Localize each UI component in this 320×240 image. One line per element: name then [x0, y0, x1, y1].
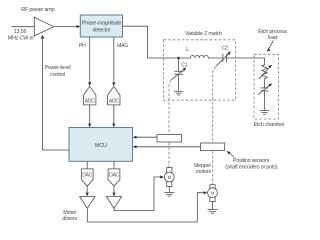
block: MCU — [69, 128, 133, 162]
label: Motor drivers — [62, 210, 77, 222]
wire: MCU to DAC2 — [113, 161, 115, 169]
wire: position sensor 1 to MCU with arrowhead — [133, 136, 157, 139]
svg-text:Power-level: Power-level — [45, 65, 71, 71]
node: C1 junction dot — [177, 57, 180, 60]
etch chamber enclosure (dashed box) — [254, 54, 279, 119]
label: L — [186, 47, 189, 53]
label: Position sensors (shaft encoders or pots) — [225, 158, 278, 170]
stepper motor 2 — [208, 185, 218, 209]
wire: 13.56 MHz CW input — [12, 26, 35, 28]
wire: ADC1 output to MCU with arrowhead — [88, 105, 91, 128]
svg-text:MCU: MCU — [95, 143, 107, 149]
wire: C2 to etch chamber, down to load — [226, 58, 264, 64]
svg-text:C2: C2 — [222, 46, 228, 52]
position sensor box 1 — [157, 135, 182, 143]
ADC 1 (phase) — [84, 86, 96, 105]
motor driver 2 (triangle) — [106, 197, 121, 209]
svg-text:13.56: 13.56 — [14, 29, 27, 35]
wire: DAC2 to driver with arrowhead — [112, 186, 115, 196]
svg-text:PH: PH — [79, 43, 86, 49]
label: Etch process load — [258, 29, 287, 41]
svg-text:Position sensors: Position sensors — [233, 158, 270, 164]
stepper motor 1 — [164, 168, 174, 193]
DAC 2 — [108, 169, 120, 186]
ADC 2 (magnitude) — [108, 86, 120, 105]
svg-text:(shaft encoders or pots): (shaft encoders or pots) — [225, 164, 278, 170]
wire: DAC1 to driver with arrowhead — [86, 186, 89, 196]
DAC 1 — [81, 169, 93, 186]
wire: MAG signal to ADC with arrowhead — [112, 37, 115, 86]
svg-text:Stepper: Stepper — [193, 163, 211, 169]
svg-text:drivers: drivers — [62, 216, 77, 222]
ground: motor 2 — [208, 210, 218, 214]
inductor L — [179, 55, 223, 58]
mechanical link from C1 to stepper motor (dashed) — [169, 80, 171, 167]
svg-text:C1: C1 — [181, 62, 187, 68]
wire: ADC2 output to MCU with arrowhead — [112, 105, 115, 128]
capacitor C1 (variable, shunt) — [171, 58, 187, 91]
pointer arrow to position sensors — [227, 151, 235, 158]
resistor (variable, etch load) — [259, 64, 272, 81]
label: Etch chamber — [254, 122, 285, 128]
label: Power-level control — [45, 65, 71, 78]
wire: PH signal to ADC with arrowhead — [88, 37, 91, 86]
svg-text:Etch chamber: Etch chamber — [254, 122, 285, 128]
ground: motor 1 — [164, 192, 174, 196]
wire: MCU to DAC1 — [86, 161, 88, 169]
motor driver 1 (triangle) — [80, 197, 95, 209]
wire: MCU power-level control to amp with arrowhead — [41, 35, 69, 150]
amplifier (RF power amp triangle) — [34, 17, 53, 36]
block: Phase-magnitude detector — [80, 15, 122, 37]
svg-text:ADC: ADC — [85, 98, 95, 104]
mechanical link from C2 to stepper motor (dashed) — [213, 67, 216, 185]
wire: position sensor 2 to MCU with arrowhead — [133, 145, 201, 148]
label: C1 — [181, 62, 187, 68]
label: MAG — [117, 43, 128, 49]
position sensor box 2 — [201, 143, 225, 151]
svg-text:control: control — [50, 72, 65, 78]
label: C2 — [222, 46, 228, 52]
wire: driver2 output to motor 1 with arrowhead — [114, 175, 164, 210]
wire: driver1 output to motor 2 with arrowhead — [87, 191, 207, 222]
svg-text:DAC: DAC — [109, 173, 119, 179]
svg-text:motors: motors — [196, 169, 212, 175]
svg-text:Motor: Motor — [63, 210, 76, 216]
capacitor (variable, etch load) — [258, 81, 272, 110]
pointer arrow to etch process load — [267, 41, 274, 52]
label: 13.56 MHz CW in — [8, 29, 34, 42]
ground: etch load — [260, 111, 269, 115]
svg-text:MAG: MAG — [117, 43, 128, 49]
wire: amp output to detector with arrowhead — [54, 25, 81, 28]
svg-text:DAC: DAC — [82, 173, 92, 179]
label: Stepper motors — [193, 163, 211, 175]
Variable Z match enclosure (dashed box) — [164, 40, 236, 100]
svg-text:load: load — [268, 35, 278, 41]
svg-text:detector: detector — [92, 28, 110, 34]
svg-text:Phase-magnitude: Phase-magnitude — [82, 21, 122, 27]
svg-text:RF power amp: RF power amp — [21, 7, 54, 13]
label: PH — [79, 43, 86, 49]
svg-text:Variable Z match: Variable Z match — [185, 31, 222, 37]
svg-text:MHz CW in: MHz CW in — [8, 35, 34, 41]
svg-text:ADC: ADC — [109, 98, 119, 104]
ground: below C1 — [174, 91, 183, 95]
label: RF power amp — [21, 7, 54, 13]
wire: detector output routed to Z match input — [123, 26, 179, 58]
capacitor C2 (variable, series) — [216, 52, 231, 67]
label: Variable Z match — [185, 31, 222, 37]
